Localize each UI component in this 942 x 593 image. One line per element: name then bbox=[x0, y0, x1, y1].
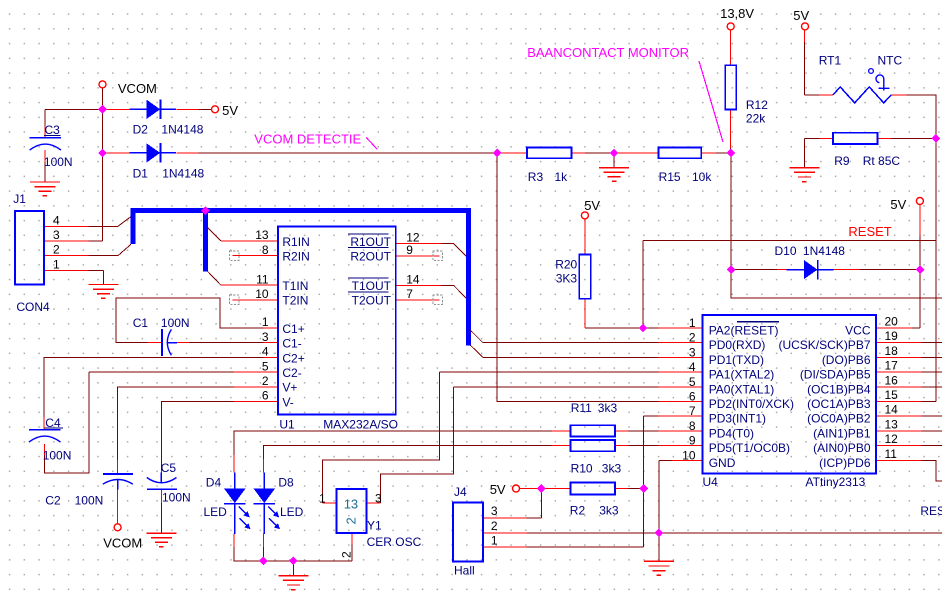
svg-text:1: 1 bbox=[53, 257, 60, 271]
svg-text:100N: 100N bbox=[75, 494, 104, 508]
svg-text:13: 13 bbox=[255, 228, 269, 242]
svg-text:C2+: C2+ bbox=[282, 351, 304, 365]
svg-text:3k3: 3k3 bbox=[599, 504, 619, 518]
svg-text:D8: D8 bbox=[278, 476, 294, 490]
wire U4 pin 19 to edge bbox=[876, 342, 942, 344]
svg-text:1N4148: 1N4148 bbox=[162, 167, 204, 181]
capacitor C4 symbol bbox=[29, 430, 61, 442]
svg-text:CON4: CON4 bbox=[16, 300, 50, 314]
wire Y1 pin 3 to U4 pin 5 bbox=[366, 387, 703, 503]
svg-text:J4: J4 bbox=[454, 485, 467, 499]
svg-text:NTC: NTC bbox=[878, 53, 903, 67]
led D8 symbol bbox=[254, 473, 280, 534]
svg-text:100N: 100N bbox=[43, 449, 72, 463]
connector J1 bbox=[15, 211, 44, 285]
wire U4 pin 18 to edge bbox=[876, 356, 942, 358]
svg-text:3: 3 bbox=[689, 345, 696, 359]
resistor R3 bbox=[527, 148, 572, 159]
wire C2 to VCOM circle bbox=[117, 490, 119, 524]
wire R2IN stub bbox=[233, 255, 279, 257]
wire T2OUT stub bbox=[396, 299, 440, 301]
node D8 gnd rail bbox=[259, 556, 268, 565]
svg-text:R1OUT: R1OUT bbox=[350, 235, 391, 249]
svg-text:GND: GND bbox=[709, 456, 736, 470]
wire mid ground stem bbox=[613, 153, 615, 168]
node bus junction bbox=[201, 206, 210, 215]
wire 5V to RT1 bbox=[804, 30, 833, 95]
wire R3 left stub bbox=[497, 152, 527, 154]
wire J1 pin 4 with bus entry bbox=[44, 217, 131, 227]
svg-text:RESET: RESET bbox=[920, 504, 942, 518]
resistor R2 bbox=[570, 483, 615, 495]
svg-text:2: 2 bbox=[340, 551, 354, 558]
svg-text:CER OSC: CER OSC bbox=[367, 535, 422, 549]
pin numbers U4 right bbox=[885, 315, 899, 461]
pin names U4 right bbox=[778, 324, 870, 470]
svg-text:BAANCONTACT MONITOR: BAANCONTACT MONITOR bbox=[527, 45, 689, 60]
power 5V at J4 bbox=[513, 485, 520, 492]
svg-text:PA1(XTAL2): PA1(XTAL2) bbox=[709, 368, 775, 382]
wire R15 left stub bbox=[614, 152, 659, 154]
led D4 symbol bbox=[224, 473, 250, 534]
svg-text:R2OUT: R2OUT bbox=[350, 250, 391, 264]
svg-text:C2-: C2- bbox=[282, 366, 301, 380]
svg-text:VCOM: VCOM bbox=[118, 81, 157, 96]
ground at R3/R15 node bbox=[599, 168, 629, 182]
svg-text:5: 5 bbox=[262, 359, 269, 373]
svg-text:J1: J1 bbox=[13, 192, 26, 206]
svg-text:R9: R9 bbox=[834, 154, 850, 168]
ic U4 ATtiny2313 box bbox=[703, 315, 877, 473]
no-connect R2OUT bbox=[433, 251, 442, 260]
wire D1 anode stub bbox=[103, 152, 130, 154]
ground under R9 bbox=[789, 168, 819, 182]
svg-text:PD1(TXD): PD1(TXD) bbox=[709, 353, 764, 367]
svg-text:R2: R2 bbox=[570, 504, 586, 518]
wire R2 right node down to J4 pin 1 bbox=[483, 489, 644, 548]
svg-text:U4: U4 bbox=[703, 475, 719, 489]
wire D2 anode stub bbox=[103, 108, 130, 110]
pin numbers J4 bbox=[491, 504, 498, 547]
wire C5 to ground bbox=[160, 489, 162, 533]
wire T1OUT to bus bbox=[396, 285, 467, 298]
node R3/R15/gnd bbox=[610, 149, 619, 158]
wire D10 cathode side bbox=[831, 269, 920, 271]
no-connect T2IN bbox=[230, 295, 239, 304]
svg-text:(AIN1)PB1: (AIN1)PB1 bbox=[813, 426, 871, 440]
capacitor C1 bbox=[162, 329, 177, 356]
svg-text:R1IN: R1IN bbox=[282, 235, 309, 249]
svg-text:(DO)PB6: (DO)PB6 bbox=[822, 353, 871, 367]
svg-text:1: 1 bbox=[319, 491, 326, 505]
node R2/J4.1/pin7 bbox=[639, 484, 648, 493]
label BAANCONTACT MONITOR bbox=[527, 45, 723, 142]
svg-text:(AIN0)PB0: (AIN0)PB0 bbox=[813, 441, 871, 455]
svg-text:22k: 22k bbox=[746, 112, 766, 126]
svg-text:10k: 10k bbox=[692, 170, 712, 184]
svg-text:3k3: 3k3 bbox=[598, 401, 618, 415]
capacitor C5 bbox=[147, 473, 177, 490]
svg-text:2: 2 bbox=[689, 331, 696, 345]
svg-text:5V: 5V bbox=[584, 198, 600, 213]
svg-text:10: 10 bbox=[255, 287, 269, 301]
ground under J1 pin 1 bbox=[88, 285, 118, 299]
wire T2IN stub bbox=[233, 299, 279, 301]
wire J1 pin 3 bbox=[44, 240, 103, 242]
svg-text:(OC1B)PB4: (OC1B)PB4 bbox=[807, 382, 871, 396]
svg-text:6: 6 bbox=[262, 389, 269, 403]
wire J1 pin 1 to ground bbox=[44, 270, 103, 284]
wire C2- row bbox=[89, 371, 278, 373]
ground under U4 pin 10 rail bbox=[644, 561, 674, 575]
svg-text:5V: 5V bbox=[890, 197, 906, 212]
svg-text:3: 3 bbox=[262, 330, 269, 344]
svg-text:4: 4 bbox=[262, 345, 269, 359]
wire D8 cathode bbox=[262, 534, 264, 561]
wire R11 to U4 pin 8 bbox=[615, 430, 703, 432]
svg-text:C1: C1 bbox=[133, 316, 149, 330]
svg-text:100N: 100N bbox=[162, 491, 191, 505]
svg-text:16: 16 bbox=[885, 373, 899, 387]
bus drop bbox=[203, 208, 208, 271]
svg-text:6: 6 bbox=[689, 390, 696, 404]
wire R20 bottom bbox=[584, 299, 586, 328]
wire bus entry to U4 pin 2 row bbox=[470, 330, 702, 343]
svg-text:3: 3 bbox=[491, 504, 498, 518]
ground under C5 bbox=[146, 533, 176, 547]
wire C2+ row to C4 bbox=[44, 357, 278, 429]
svg-text:D4: D4 bbox=[206, 476, 222, 490]
svg-text:VCOM: VCOM bbox=[103, 536, 142, 551]
svg-text:5V: 5V bbox=[490, 482, 506, 497]
svg-text:2: 2 bbox=[53, 243, 60, 257]
svg-text:9: 9 bbox=[689, 434, 696, 448]
svg-text:15: 15 bbox=[885, 388, 899, 402]
svg-text:Y1: Y1 bbox=[367, 518, 382, 532]
wire U4 pin 11 routed to edge bbox=[876, 460, 942, 481]
svg-text:R2IN: R2IN bbox=[282, 250, 309, 264]
wire C3 bottom lead to ground bbox=[44, 150, 46, 182]
wire VCOM top horizontal bbox=[45, 108, 103, 110]
svg-text:20: 20 bbox=[885, 315, 899, 329]
svg-text:LED: LED bbox=[204, 505, 228, 519]
label C3 bbox=[44, 123, 61, 137]
node VCOM/D2 bbox=[98, 105, 107, 114]
svg-text:(ICP)PD6: (ICP)PD6 bbox=[819, 456, 871, 470]
svg-text:3: 3 bbox=[375, 491, 382, 505]
wire RESET net right vertical to pin 15 bbox=[876, 241, 936, 402]
svg-text:7: 7 bbox=[689, 404, 696, 418]
svg-text:C2: C2 bbox=[45, 494, 61, 508]
node pin10 gnd rail bbox=[654, 529, 663, 538]
wire R12 node down to corner bbox=[731, 153, 942, 298]
wire VCOM DETECTIE net bbox=[177, 152, 498, 154]
resistor R9 bbox=[833, 133, 878, 144]
wire U4 pin 14 to edge bbox=[876, 415, 942, 417]
power 5V at RT1 bbox=[802, 23, 809, 30]
svg-text:1N4148: 1N4148 bbox=[161, 123, 203, 137]
svg-text:R12: R12 bbox=[746, 98, 768, 112]
node RESET/pin1 bbox=[639, 324, 648, 333]
wire J1 pin 2 with bus entry bbox=[44, 244, 131, 256]
svg-text:PD5(T1/OC0B): PD5(T1/OC0B) bbox=[709, 441, 790, 455]
wire R20 top to 5V bbox=[584, 219, 586, 255]
node 5V/R2/J4.3 bbox=[537, 484, 546, 493]
power 5V at R20 bbox=[581, 212, 588, 219]
wire R9 right bbox=[878, 137, 936, 139]
svg-text:13: 13 bbox=[344, 497, 358, 512]
wire bus entry to R1IN bbox=[208, 228, 278, 241]
svg-text:3: 3 bbox=[53, 228, 60, 242]
wire C1+ loop bbox=[116, 298, 278, 343]
wire R3 right bbox=[572, 152, 615, 154]
svg-text:7: 7 bbox=[406, 287, 413, 301]
svg-text:D2: D2 bbox=[133, 123, 149, 137]
wire RESET net horizontal bbox=[643, 240, 936, 242]
svg-text:(DI/SDA)PB5: (DI/SDA)PB5 bbox=[800, 368, 871, 382]
ground under C3 bbox=[30, 182, 60, 196]
svg-text:U1: U1 bbox=[279, 418, 295, 432]
svg-text:Hall: Hall bbox=[454, 564, 475, 578]
node VCOM/D1 bbox=[98, 149, 107, 158]
svg-text:5V: 5V bbox=[222, 103, 238, 118]
svg-text:1: 1 bbox=[262, 315, 269, 329]
svg-text:100N: 100N bbox=[44, 155, 73, 169]
svg-text:VCOM DETECTIE: VCOM DETECTIE bbox=[254, 131, 361, 146]
wire C3 top lead bbox=[44, 109, 46, 138]
svg-text:(OC1A)PB3: (OC1A)PB3 bbox=[807, 397, 871, 411]
svg-text:R11: R11 bbox=[571, 401, 592, 415]
svg-text:11: 11 bbox=[885, 447, 898, 461]
svg-text:R10: R10 bbox=[571, 462, 593, 476]
svg-text:3k3: 3k3 bbox=[602, 462, 622, 476]
svg-text:RESET: RESET bbox=[848, 224, 891, 239]
wire R9 left to ground bbox=[804, 138, 833, 168]
wire V- row to C5 bbox=[161, 402, 278, 478]
pin names U1 right bbox=[348, 234, 392, 308]
resistor R12 bbox=[725, 65, 736, 109]
svg-text:3K3: 3K3 bbox=[556, 271, 578, 285]
svg-text:1: 1 bbox=[689, 316, 696, 330]
svg-text:13: 13 bbox=[885, 417, 899, 431]
svg-text:T2OUT: T2OUT bbox=[352, 294, 392, 308]
wire J4 pin 2 ground rail bbox=[483, 532, 942, 534]
svg-text:1k: 1k bbox=[555, 170, 569, 184]
wire D10 anode side bbox=[731, 269, 790, 271]
wire J4 pin 3 to 5V node bbox=[483, 489, 542, 518]
op-amp U1 MAX232 box bbox=[278, 227, 396, 415]
svg-text:4: 4 bbox=[689, 360, 696, 374]
svg-text:12: 12 bbox=[885, 432, 899, 446]
power 5V top left bbox=[212, 106, 219, 113]
resistor R15 bbox=[659, 148, 702, 159]
svg-text:D1: D1 bbox=[133, 167, 149, 181]
svg-text:Rt 85C: Rt 85C bbox=[863, 154, 901, 168]
svg-text:1: 1 bbox=[491, 534, 498, 548]
svg-text:5: 5 bbox=[689, 375, 696, 389]
svg-text:(UCSK/SCK)PB7: (UCSK/SCK)PB7 bbox=[778, 338, 870, 352]
power VCOM bottom bbox=[114, 524, 121, 531]
svg-text:RT1: RT1 bbox=[819, 53, 842, 67]
pin labels Y1 bbox=[319, 491, 382, 558]
node R15/R12 bbox=[727, 149, 736, 158]
wire bus entry to U4 pin 3 row bbox=[470, 345, 702, 357]
resistor R10 bbox=[570, 440, 615, 451]
svg-text:C1-: C1- bbox=[282, 337, 301, 351]
wire led ground stem bbox=[292, 561, 294, 576]
svg-text:17: 17 bbox=[885, 359, 899, 373]
svg-text:T1OUT: T1OUT bbox=[352, 279, 392, 293]
node D10 cathode/5V bbox=[916, 265, 925, 274]
wire Y1 pin 1 to U4 pin 4 bbox=[322, 372, 702, 503]
svg-text:2: 2 bbox=[262, 374, 269, 388]
wire RT1 right down line bbox=[891, 95, 936, 241]
svg-text:4: 4 bbox=[53, 213, 60, 227]
wire C4 bottom loop bbox=[45, 372, 89, 473]
pin numbers U1 right bbox=[406, 231, 420, 301]
pin names U4 left bbox=[709, 322, 794, 470]
pin numbers J1 bbox=[53, 213, 60, 271]
svg-text:C5: C5 bbox=[161, 461, 177, 475]
power VCOM top bbox=[99, 81, 106, 88]
svg-text:V+: V+ bbox=[282, 381, 297, 395]
label C4 bbox=[45, 416, 64, 430]
resistor R20 bbox=[579, 255, 590, 299]
wire D4 anode to R11 row bbox=[234, 431, 571, 472]
label VCOM DETECTIE bbox=[254, 131, 377, 149]
svg-text:PA2(RESET): PA2(RESET) bbox=[709, 324, 779, 338]
svg-text:19: 19 bbox=[885, 329, 899, 343]
svg-text:C1+: C1+ bbox=[282, 322, 304, 336]
svg-text:1N4148: 1N4148 bbox=[803, 244, 845, 258]
wire 13.8V to R12 bbox=[730, 30, 732, 65]
svg-text:8: 8 bbox=[689, 419, 696, 433]
power 5V right bbox=[916, 198, 923, 205]
diode D2 symbol bbox=[129, 100, 176, 119]
svg-text:T1IN: T1IN bbox=[282, 279, 308, 293]
diode D1 symbol bbox=[129, 143, 176, 162]
thermistor RT1 bbox=[833, 69, 891, 103]
svg-text:100N: 100N bbox=[161, 316, 190, 330]
svg-text:PD2(INT0/XCK): PD2(INT0/XCK) bbox=[709, 397, 794, 411]
wire R12 bottom bbox=[730, 110, 732, 153]
wire R1OUT to bus bbox=[396, 243, 467, 256]
bus main bbox=[133, 211, 468, 346]
wire R2OUT stub bbox=[396, 255, 440, 257]
svg-text:PA0(XTAL1): PA0(XTAL1) bbox=[709, 382, 775, 396]
wire D8 anode to R10 row bbox=[263, 446, 570, 473]
pin numbers U4 left bbox=[682, 316, 696, 462]
power 13.8V bbox=[727, 23, 734, 30]
wire bus entry to T1IN bbox=[208, 271, 278, 285]
pin names U1 left bbox=[282, 235, 309, 410]
wire U4 pin 10 to ground bbox=[659, 460, 703, 561]
svg-text:R20: R20 bbox=[555, 257, 577, 271]
wire D4 cathode to gnd rail bbox=[234, 534, 352, 561]
svg-text:R15: R15 bbox=[659, 170, 681, 184]
svg-text:5V: 5V bbox=[793, 8, 809, 23]
resistor R11 bbox=[570, 425, 615, 436]
svg-text:LED: LED bbox=[280, 505, 304, 519]
wire U4 pin 16 to edge bbox=[876, 386, 942, 388]
ground under led rail bbox=[278, 576, 308, 590]
pin numbers U1 left bbox=[255, 228, 269, 403]
node R9/NTC bbox=[932, 134, 941, 143]
svg-text:T2IN: T2IN bbox=[282, 294, 308, 308]
wire 5V to R2 bbox=[520, 488, 571, 490]
no-connect T2OUT bbox=[433, 295, 442, 304]
oscillator Y1 bbox=[336, 489, 366, 533]
wire RESET net left vertical to pin 1 bbox=[585, 241, 703, 328]
wire U4 pin 17 to edge bbox=[876, 371, 942, 373]
svg-text:C4: C4 bbox=[45, 416, 61, 430]
capacitor C3 symbol bbox=[30, 138, 61, 150]
svg-text:11: 11 bbox=[256, 272, 269, 286]
no-connect R2IN bbox=[230, 251, 239, 260]
svg-text:18: 18 bbox=[885, 344, 899, 358]
svg-text:R3: R3 bbox=[528, 170, 544, 184]
wire VCOM vertical bbox=[102, 88, 104, 241]
svg-text:VCC: VCC bbox=[845, 324, 871, 338]
svg-text:PD3(INT1): PD3(INT1) bbox=[709, 412, 766, 426]
svg-text:MAX232A/SO: MAX232A/SO bbox=[323, 418, 398, 432]
svg-text:10: 10 bbox=[682, 448, 696, 462]
svg-text:V-: V- bbox=[282, 395, 293, 409]
node gnd stem rail bbox=[289, 556, 298, 565]
svg-text:PD0(RXD): PD0(RXD) bbox=[709, 338, 766, 352]
capacitor C2 bbox=[103, 474, 133, 490]
svg-text:PD4(T0): PD4(T0) bbox=[709, 426, 754, 440]
svg-text:2: 2 bbox=[344, 517, 359, 524]
wire C1- row bbox=[177, 342, 278, 344]
wire U4 pin 13 to edge bbox=[876, 430, 942, 432]
node detectie/R3 bbox=[493, 149, 502, 158]
svg-text:14: 14 bbox=[885, 403, 899, 417]
wire U4 pin 12 to edge bbox=[876, 445, 942, 447]
wire U4 pin 7 to R2 node bbox=[644, 416, 703, 488]
svg-text:D10: D10 bbox=[775, 244, 797, 258]
wire detectie net to U4 pin 6 bbox=[497, 153, 702, 402]
svg-text:(OC0A)PB2: (OC0A)PB2 bbox=[807, 412, 871, 426]
wire 5V right vertical to VCC bbox=[876, 205, 920, 328]
svg-text:2: 2 bbox=[491, 519, 498, 533]
diode D10 symbol bbox=[787, 260, 834, 279]
svg-text:ATtiny2313: ATtiny2313 bbox=[806, 475, 866, 489]
connector J4 bbox=[453, 503, 483, 562]
svg-text:14: 14 bbox=[406, 273, 420, 287]
svg-text:9: 9 bbox=[406, 243, 413, 257]
svg-text:8: 8 bbox=[262, 243, 269, 257]
wire V+ row to C2 bbox=[118, 387, 278, 474]
wire D2 to 5V bbox=[177, 108, 212, 110]
wire R15 right bbox=[701, 152, 731, 154]
wire R10 to U4 pin 9 bbox=[615, 445, 703, 447]
wire Y1 pin 2 stub bbox=[351, 533, 353, 561]
svg-text:13,8V: 13,8V bbox=[720, 6, 754, 21]
node D10 anode bbox=[727, 265, 736, 274]
